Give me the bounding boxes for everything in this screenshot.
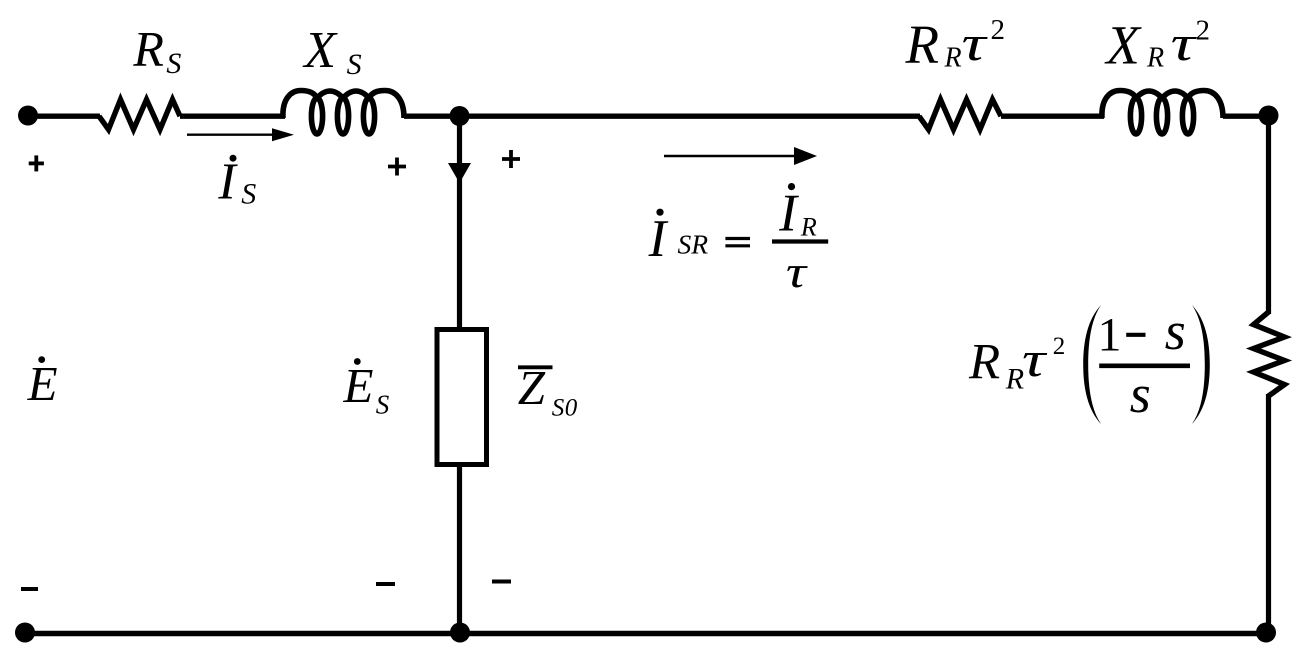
svg-text:1: 1	[1098, 309, 1122, 362]
minus mark (Z_S0)	[492, 580, 511, 584]
svg-text:τ: τ	[786, 248, 808, 297]
svg-text:R: R	[968, 335, 1000, 391]
svg-text:2: 2	[1196, 15, 1211, 47]
svg-text:X: X	[302, 22, 338, 79]
svg-text:S: S	[166, 47, 181, 80]
svg-text:R: R	[800, 212, 817, 241]
svg-text:s: s	[1130, 364, 1151, 424]
svg-text:τ: τ	[1171, 15, 1198, 71]
resistor R_R tau^2 (1-s)/s (vertical)	[1254, 312, 1285, 396]
wire inductor XRt2 to top-right corner	[1223, 113, 1269, 118]
inductor X_S	[283, 91, 404, 135]
impedance Z_S0 rectangle	[437, 330, 487, 465]
svg-text:X: X	[1104, 15, 1142, 76]
node (bottom-left)	[15, 623, 35, 643]
svg-text:2: 2	[991, 14, 1006, 46]
plus mark (left port)	[29, 155, 44, 171]
svg-text:I: I	[648, 210, 669, 268]
minus mark (left port)	[21, 587, 38, 591]
svg-text:E: E	[27, 356, 58, 411]
wire middle vertical upper	[457, 115, 462, 330]
svg-text:2: 2	[1053, 333, 1066, 360]
resistor R_S	[99, 100, 180, 130]
current arrow I_S	[187, 133, 277, 135]
svg-text:I: I	[778, 185, 799, 243]
current arrowhead (magnetizing branch, pointing down)	[448, 163, 471, 183]
node (bottom-center)	[450, 623, 470, 643]
node junction (magnetizing branch)	[450, 106, 470, 126]
terminal node (top-left)	[18, 106, 38, 126]
wire top junction to resistor RRt2	[459, 113, 920, 118]
svg-text:S: S	[552, 395, 565, 422]
svg-text:S: S	[347, 48, 362, 81]
current arrow I_SR	[664, 155, 800, 158]
wire right vertical upper	[1266, 115, 1271, 314]
wire top-left terminal to resistor RS	[28, 113, 100, 118]
svg-text:E: E	[343, 358, 374, 413]
svg-text:τ: τ	[962, 15, 989, 71]
resistor R_R tau^2	[919, 100, 1001, 130]
node (top-right corner)	[1259, 106, 1279, 126]
svg-text:R: R	[944, 43, 962, 74]
svg-text:I: I	[217, 154, 238, 211]
wire inductor XS to junction	[404, 113, 460, 118]
minus mark (E_S)	[376, 582, 395, 586]
svg-text:τ: τ	[1022, 331, 1048, 387]
svg-text:R: R	[132, 21, 164, 77]
inductor X_R tau^2	[1102, 91, 1223, 135]
wire right vertical lower	[1266, 394, 1271, 633]
node (bottom-right)	[1256, 623, 1276, 643]
svg-text:S: S	[376, 390, 390, 420]
wire resistor RS to inductor XS	[180, 113, 285, 118]
svg-text:R: R	[1146, 43, 1164, 74]
svg-text:S: S	[241, 178, 256, 211]
wire resistor RRt2 to inductor XRt2	[1001, 113, 1104, 118]
svg-text:s: s	[1165, 301, 1186, 361]
wire bottom	[25, 631, 1266, 637]
svg-text:R: R	[905, 14, 940, 75]
plus mark (after X_S)	[388, 158, 406, 176]
svg-text:SR: SR	[678, 229, 709, 260]
wire middle vertical lower	[457, 464, 462, 633]
plus mark (magnetizing branch)	[502, 150, 520, 168]
svg-text:0: 0	[565, 395, 578, 422]
